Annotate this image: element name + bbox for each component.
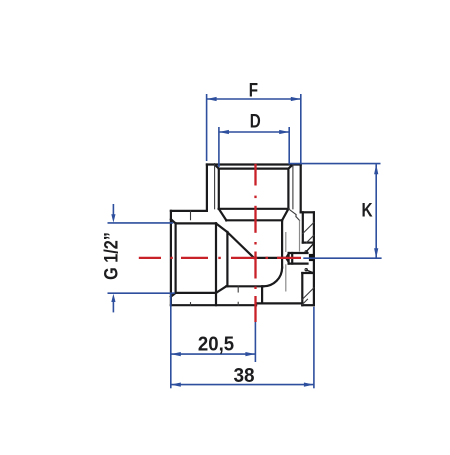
bore intersection diagonal upper (216, 223, 227, 232)
drill end lower (285, 264, 287, 291)
left collar top edge (171, 210, 207, 212)
right outer edge (313, 212, 315, 305)
dim G arrow stem bottom (112, 301, 114, 313)
cavity right wall vertical (281, 220, 283, 267)
notch circle lower (305, 269, 307, 271)
cavity tick (237, 286, 239, 292)
neck taper diag 2 (296, 217, 300, 221)
dim D arrow left (219, 130, 229, 134)
right lower thread block top (302, 272, 314, 274)
dim 20,5 line (171, 353, 256, 355)
dim 20,5 arrow right (245, 352, 255, 356)
dim G extension top (108, 222, 174, 224)
dim G arrow bottom (111, 294, 115, 302)
body bottom step (255, 303, 257, 305)
port solid section bar (309, 254, 314, 261)
notch circle upper (305, 251, 307, 253)
top arm chamfer inner edge (219, 168, 289, 170)
right neck step edge (301, 211, 314, 213)
left port face chamfer top (171, 219, 176, 223)
dim 38 arrow right (304, 383, 314, 387)
body bottom edge right (256, 302, 302, 304)
neck taper diag 1 (288, 209, 296, 215)
centerline vertical dashes (254, 164, 256, 186)
heel seam vertical (261, 286, 263, 303)
dim 38 arrow left (171, 383, 181, 387)
dim F arrow left (207, 97, 217, 101)
svg-text:K: K (361, 199, 373, 221)
dim G extension bottom (108, 292, 175, 294)
port channel top (289, 252, 308, 254)
top arm thread end line (219, 208, 289, 210)
dim D extension right (288, 127, 290, 165)
right upper thread block bottom (303, 242, 314, 244)
dim G arrow top (111, 214, 115, 222)
dim 20,5 arrow left (171, 352, 181, 356)
collar tick top (190, 211, 192, 220)
right lower thread block left (301, 273, 303, 305)
top arm bore left wall (218, 169, 220, 209)
left port bore top (176, 222, 216, 224)
cavity bottom line (226, 285, 263, 287)
hatch lower block 1 (302, 288, 314, 300)
dim F arrow right (291, 97, 301, 101)
left port runout taper bottom (216, 286, 226, 293)
drill end upper (285, 232, 287, 252)
dim K extension bottom (303, 257, 381, 259)
port cone lower (286, 258, 289, 263)
dim F line (207, 98, 301, 100)
body bottom edge left (171, 304, 256, 306)
dim F extension right (300, 94, 302, 164)
centerline horizontal dashes (139, 257, 161, 259)
hatch lower block 2 (302, 299, 307, 304)
bottom tick mid (237, 302, 239, 305)
port channel bottom (289, 263, 308, 265)
top arm runout taper right (282, 209, 288, 221)
svg-text:20,5: 20,5 (198, 334, 234, 356)
dim D line (219, 131, 289, 133)
svg-text:38: 38 (233, 364, 254, 387)
right lower thread block bottom (302, 304, 314, 306)
top arm chamfer right (288, 165, 293, 169)
top arm thread major left (214, 165, 216, 209)
port cone base (288, 253, 290, 264)
heel fillet arc (263, 268, 282, 287)
neck groove line (299, 220, 301, 251)
dim 20,5 extension center (254, 322, 256, 362)
dim F extension left (206, 94, 208, 161)
port channel left end (291, 253, 293, 264)
left port bore face edge (175, 223, 177, 293)
bore intersection diagonal main (227, 232, 254, 258)
dim 38 line (171, 384, 314, 386)
top arm outer right wall (300, 165, 302, 213)
top arm runout taper left (219, 209, 227, 221)
notch upper diagonal (307, 243, 314, 251)
svg-text:D: D (250, 110, 261, 132)
top arm thread major right (292, 165, 294, 209)
right upper thread block left (302, 212, 304, 242)
dim D arrow right (279, 130, 289, 134)
top arm top face (207, 163, 301, 165)
dim K extension top (289, 163, 381, 165)
left port thread end vertical (215, 223, 217, 305)
cavity center line to port (254, 257, 286, 259)
left port face chamfer bottom (171, 293, 176, 297)
svg-text:F: F (249, 79, 258, 101)
svg-text:G 1/2”: G 1/2” (100, 232, 121, 280)
top arm chamfer left (215, 165, 219, 169)
cavity inner vertical (226, 232, 228, 286)
top arm outer left wall (206, 165, 208, 211)
hatch upper block 2 (307, 235, 314, 242)
neck taper vertical (295, 215, 297, 217)
hatch upper block 1 (303, 222, 314, 233)
left port face (170, 211, 172, 305)
top arm runout end line (226, 219, 282, 221)
dim 38 extension right (313, 307, 315, 389)
top arm bore right wall (287, 169, 289, 209)
dim K line (375, 164, 377, 258)
dim K arrow bottom (374, 248, 378, 258)
dim K arrow top (374, 164, 378, 174)
dim 20,5 extension left (shared with 38) (170, 294, 172, 389)
dim D extension left (218, 127, 220, 167)
dim G arrow stem top (112, 204, 114, 216)
notch lower diagonal (307, 270, 314, 273)
left port bore bottom (176, 292, 216, 294)
port cone upper (286, 253, 289, 258)
collar tick bottom (190, 303, 192, 306)
